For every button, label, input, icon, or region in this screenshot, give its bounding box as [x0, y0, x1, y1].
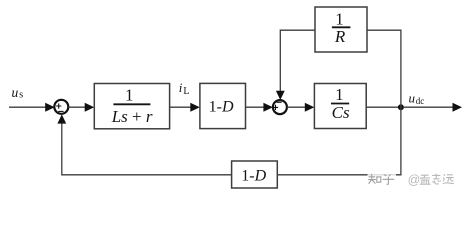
arrowhead into S2 top: [276, 91, 285, 100]
arrowhead into G3: [305, 103, 315, 112]
wire H to S1: [62, 123, 232, 175]
watermark glyph 知 main: [368, 174, 381, 184]
svg-text:u: u: [12, 85, 19, 100]
block H 1-D bottom: [232, 161, 278, 188]
block G2 1-D: [200, 83, 246, 128]
block GR 1/R: [315, 7, 367, 52]
svg-text:1: 1: [335, 9, 344, 28]
fraction bar GR: [332, 26, 351, 28]
wire S1 to G1: [68, 106, 86, 108]
block G1 1/(Ls+r): [94, 84, 169, 129]
minus sign S1: [58, 110, 63, 112]
arrowhead into S1 bottom: [57, 114, 66, 123]
wire G3 to node: [366, 106, 401, 108]
svg-text:s: s: [19, 90, 23, 101]
watermark glyph 孟: [420, 175, 431, 184]
wire G1 to G2: [170, 106, 192, 108]
arrowhead output: [453, 103, 463, 112]
fraction bar G3: [331, 103, 349, 105]
plus sign S1: [56, 103, 61, 108]
wire GR to S2: [280, 30, 315, 91]
minus sign S2: [277, 101, 282, 103]
wire node to top feedback: [367, 30, 401, 107]
arrowhead into S2: [263, 103, 273, 112]
wire input: [9, 106, 47, 108]
wire G2 to S2: [246, 106, 265, 108]
arrowhead into summer S1: [45, 103, 55, 112]
svg-text:1-D: 1-D: [241, 167, 266, 184]
summing junction S2: [273, 100, 287, 114]
watermark glyph 乎: [383, 174, 395, 184]
svg-text:1-D: 1-D: [209, 99, 234, 116]
svg-text:i: i: [179, 80, 183, 95]
summing junction S1: [54, 100, 68, 114]
svg-text:1: 1: [125, 85, 134, 104]
plus sign S2: [273, 105, 278, 110]
svg-text:Ls + r: Ls + r: [111, 107, 153, 126]
block G3 1/Cs: [314, 84, 366, 129]
watermark halo: [368, 172, 397, 187]
svg-text:u: u: [409, 91, 416, 106]
svg-text:@: @: [408, 173, 421, 187]
wire output: [404, 106, 454, 108]
wire S2 to G3: [287, 106, 306, 108]
watermark glyph 志: [432, 174, 440, 184]
svg-text:Cs: Cs: [332, 103, 350, 122]
watermark glyph 远: [443, 174, 454, 184]
watermark glyph 知: [369, 175, 395, 186]
output node dot: [398, 104, 404, 110]
arrowhead into G2: [190, 103, 200, 112]
svg-text:1: 1: [335, 85, 344, 104]
fraction bar G1: [113, 103, 150, 105]
wire node to bottom feedback: [277, 107, 401, 175]
svg-text:R: R: [334, 27, 346, 46]
arrowhead into G1: [85, 103, 95, 112]
svg-text:L: L: [183, 86, 189, 97]
svg-text:dc: dc: [416, 96, 425, 106]
